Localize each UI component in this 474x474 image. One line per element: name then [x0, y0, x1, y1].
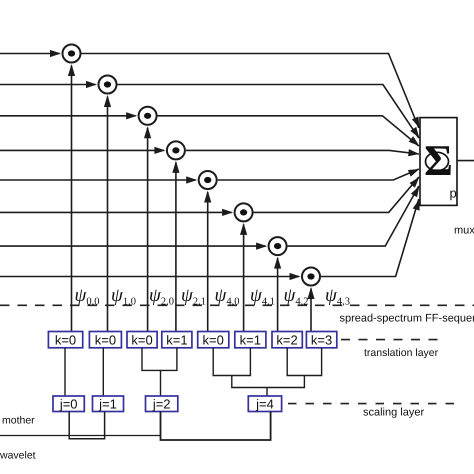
wire input row 8 — [0, 276, 299, 278]
wire j0-j1 connect — [69, 412, 104, 439]
svg-text:j=4: j=4 — [255, 397, 274, 412]
wire second merge to j4 — [232, 376, 305, 388]
box j=4 — [248, 396, 281, 412]
box j=1 — [93, 396, 124, 412]
dashed line translation layer — [341, 339, 446, 341]
box j=0 — [53, 396, 84, 412]
svg-text:k=0: k=0 — [131, 332, 152, 347]
dashed line scaling layer — [288, 403, 461, 405]
wire wavelet column 4 — [175, 162, 177, 331]
wire input row 7 — [0, 245, 266, 247]
box k1: k=0 — [48, 332, 82, 348]
wire row 6 to summer — [254, 177, 419, 212]
wire input row 4 — [0, 149, 164, 151]
multiplier node M5 — [199, 171, 217, 189]
svg-text:k=1: k=1 — [240, 332, 261, 347]
box k3: k=0 — [127, 332, 157, 348]
box k5: k=0 — [198, 332, 229, 348]
svg-text:j=1: j=1 — [98, 397, 117, 412]
wire wavelet column 7 — [277, 258, 279, 331]
svg-text:Σ: Σ — [424, 136, 453, 185]
wire k3,k4 merge to j2 — [142, 348, 177, 371]
multiplier node M3 — [139, 107, 157, 125]
wire row 8 to summer — [321, 199, 419, 277]
dashed line spread-spectrum FF-sequence layer — [0, 304, 474, 306]
wire row 2 to summer — [118, 85, 419, 139]
box j=2 — [146, 396, 178, 412]
svg-text:k=0: k=0 — [203, 332, 224, 347]
svg-text:p: p — [450, 186, 457, 201]
wire input row 2 — [0, 84, 96, 86]
wire input row 6 — [0, 211, 232, 213]
wire k1 to j0 — [64, 348, 66, 396]
svg-text:wavelet: wavelet — [0, 450, 36, 462]
box k7: k=2 — [272, 332, 302, 348]
svg-text:k=0: k=0 — [55, 332, 76, 347]
wire row 3 to summer — [158, 116, 419, 146]
summer U1 box — [420, 118, 457, 206]
svg-text:mother: mother — [2, 415, 35, 427]
box k8: k=3 — [306, 332, 336, 348]
multiplier node M1 — [63, 45, 81, 63]
svg-text:k=1: k=1 — [166, 332, 187, 347]
svg-text:j=0: j=0 — [59, 397, 78, 412]
wire row 7 to summer — [288, 186, 419, 246]
svg-text:k=0: k=0 — [95, 332, 116, 347]
wire wavelet column 1 — [71, 66, 73, 332]
svg-text:mux:: mux: — [454, 225, 474, 237]
wire row 4 to summer — [186, 150, 419, 154]
wire k7,k8 merge — [287, 348, 321, 376]
wire k2 to j1 — [102, 348, 104, 396]
wire input row 1 — [0, 53, 60, 55]
wire row 5 to summer — [218, 169, 419, 180]
svg-text:k=3: k=3 — [311, 332, 332, 347]
wire j2-j4 connect — [161, 412, 271, 441]
wire row 1 to summer — [82, 54, 419, 129]
multiplier node M8 — [302, 268, 320, 286]
multiplier node M2 — [99, 76, 117, 94]
wire wavelet column 6 — [243, 224, 245, 331]
multiplier node M6 — [235, 203, 253, 221]
svg-text:k=2: k=2 — [276, 332, 297, 347]
multiplier node M7 — [269, 237, 287, 255]
svg-text:j=2: j=2 — [152, 397, 171, 412]
wire wavelet column 8 — [310, 289, 312, 332]
wire mother wavelet bus — [0, 435, 161, 437]
wire wavelet column 2 — [107, 97, 109, 332]
wire wavelet column 3 — [147, 128, 149, 332]
svg-text:spread-spectrum FF-sequence: spread-spectrum FF-sequence — [340, 313, 474, 325]
box k2: k=0 — [89, 332, 121, 348]
box k6: k=1 — [235, 332, 266, 348]
wire input row 3 — [0, 115, 136, 117]
wire summer output — [457, 160, 474, 162]
wire k5,k6 merge — [213, 348, 250, 376]
svg-text:translation layer: translation layer — [364, 347, 439, 359]
wire input row 5 — [0, 179, 196, 181]
box k4: k=1 — [162, 332, 192, 348]
wire wavelet column 5 — [207, 192, 209, 332]
svg-text:scaling layer: scaling layer — [363, 407, 424, 419]
multiplier node M4 — [167, 141, 185, 159]
summer circle — [426, 152, 449, 170]
